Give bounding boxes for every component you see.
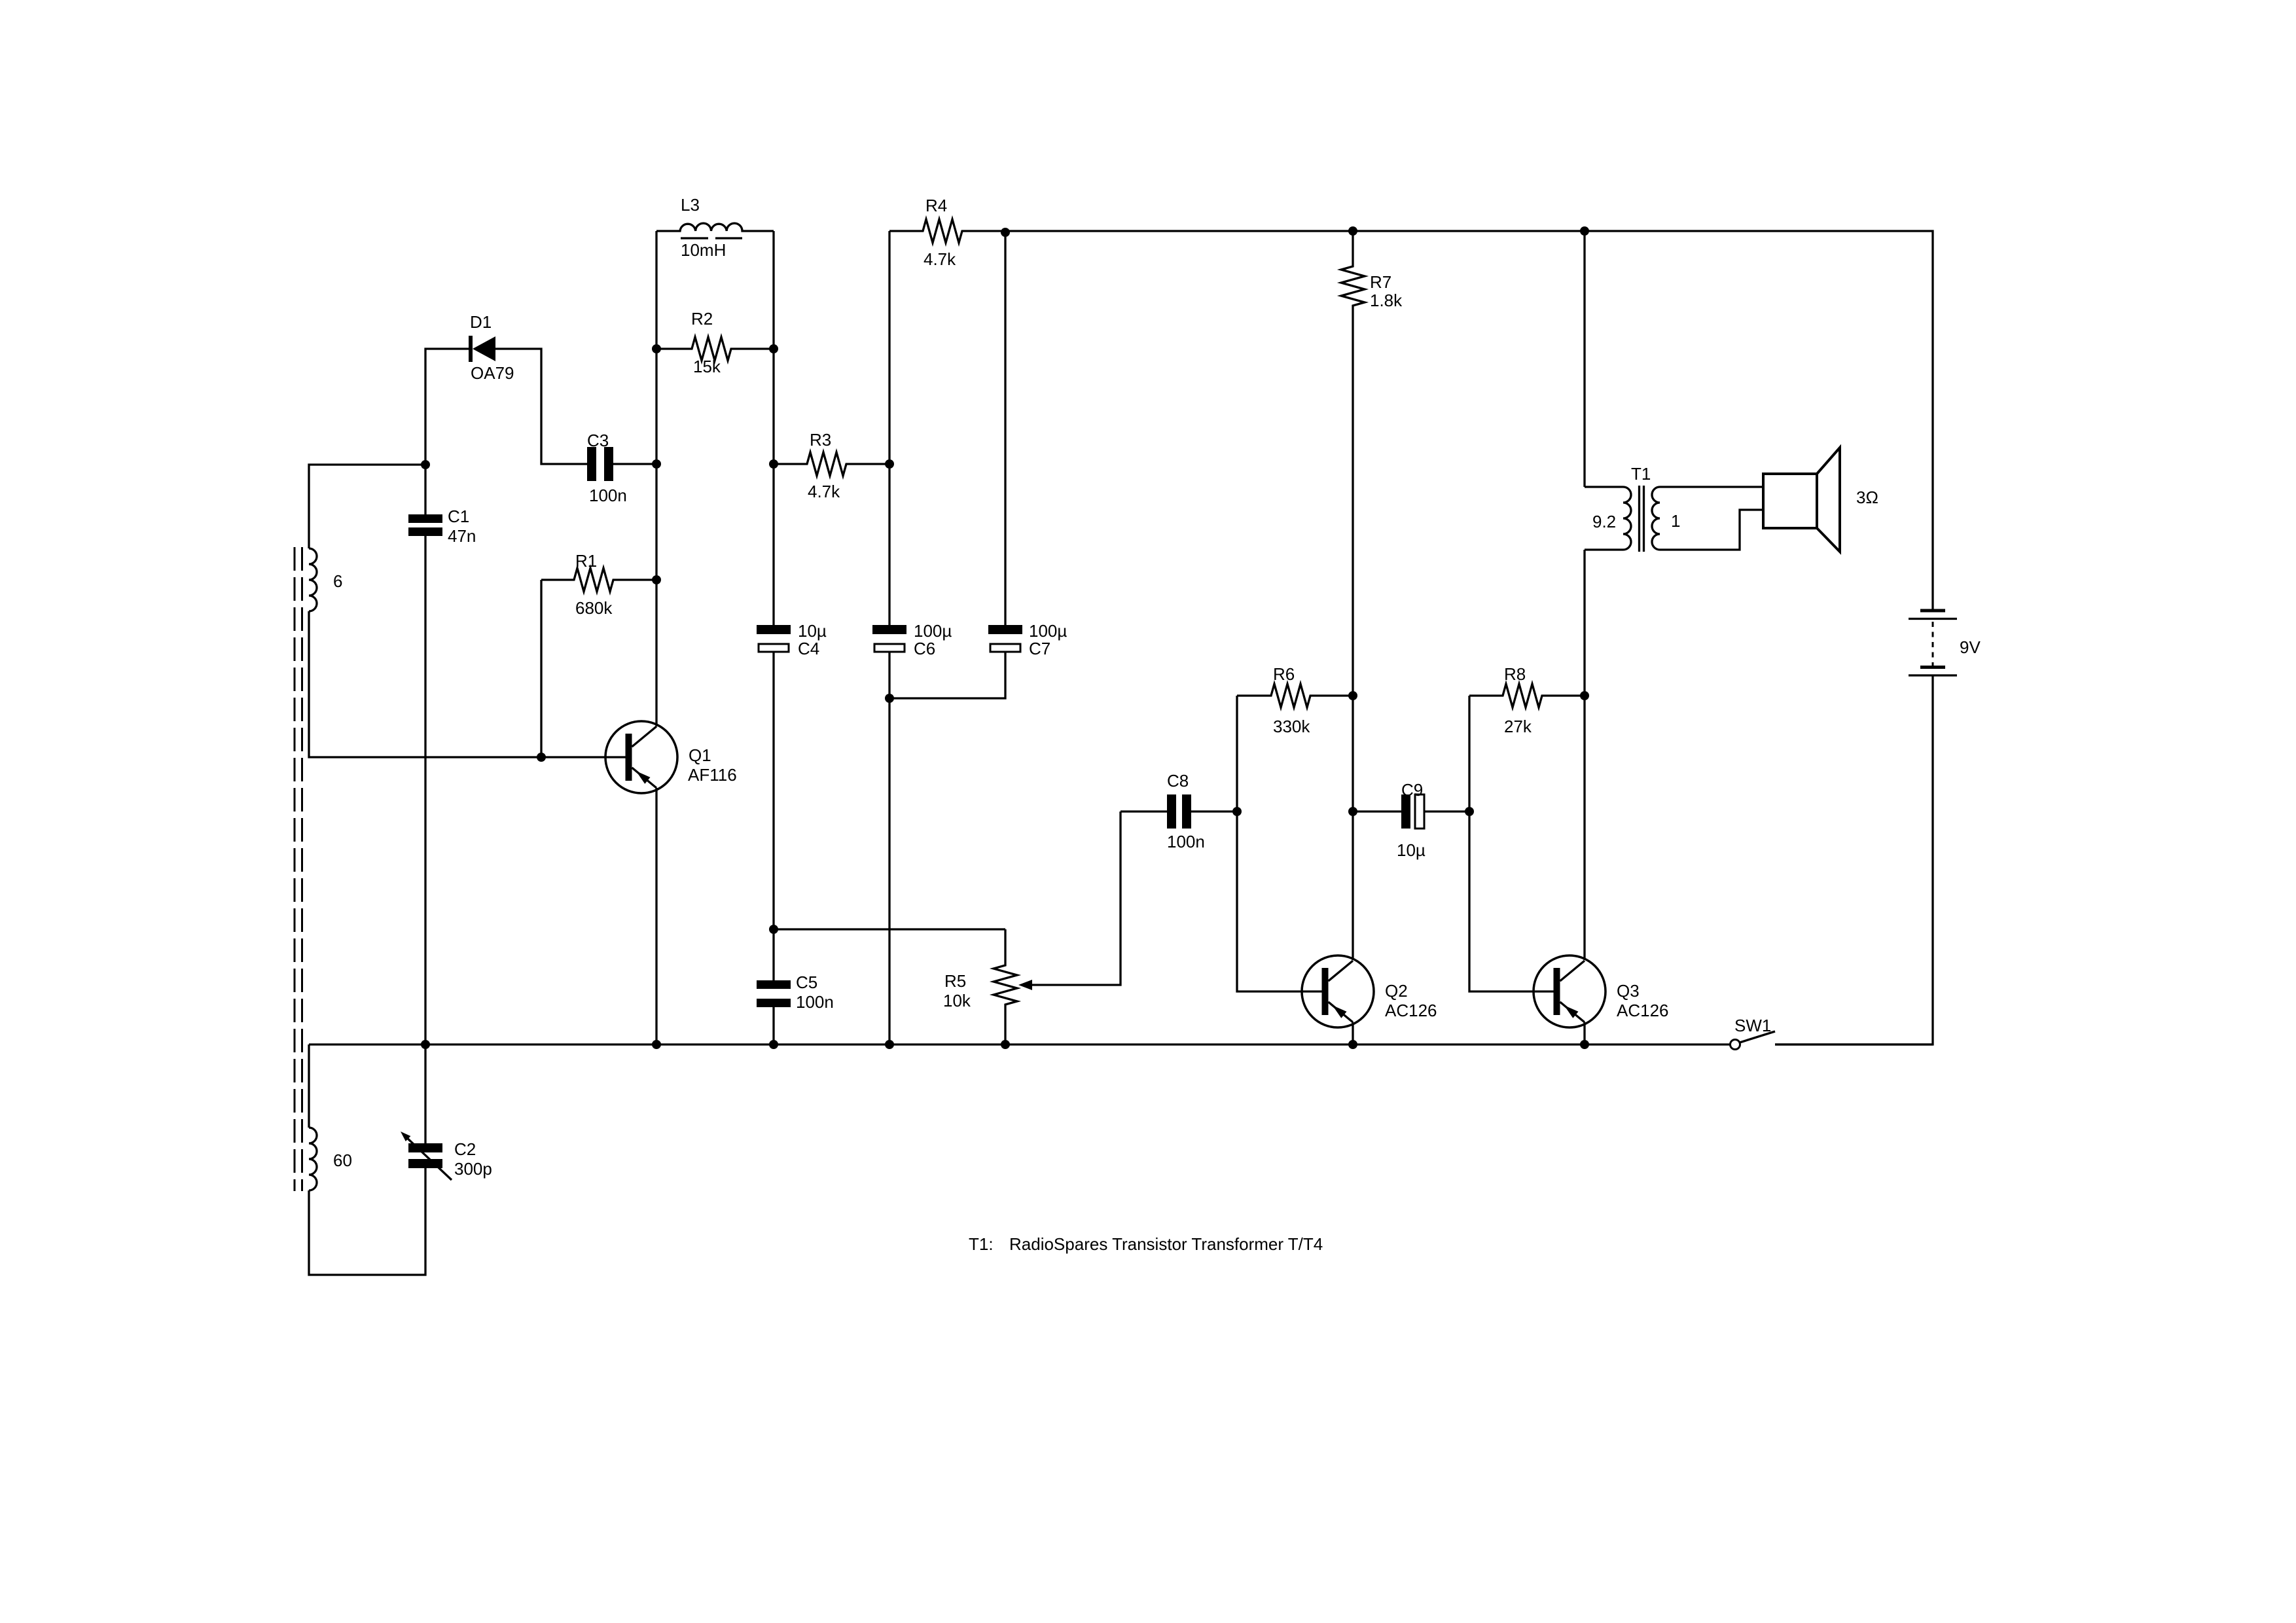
svg-text:R4: R4 — [925, 196, 947, 215]
resistor R3 4.7k — [774, 452, 889, 476]
transistor Q1 AF116 — [605, 721, 677, 793]
svg-text:R7: R7 — [1370, 272, 1391, 292]
capacitor C9 10u (polarized) — [1401, 794, 1424, 829]
svg-text:100n: 100n — [796, 992, 834, 1012]
transformer T1 core — [1640, 486, 1644, 552]
node Q3 emitter ground — [1580, 1040, 1589, 1049]
svg-text:C1: C1 — [448, 507, 469, 526]
resistor R8 27k — [1469, 684, 1585, 707]
svg-text:C8: C8 — [1167, 771, 1189, 791]
node C1/C2 ground — [421, 1040, 430, 1049]
svg-text:9.2: 9.2 — [1592, 512, 1616, 531]
capacitor C4 10u (polarized) — [757, 625, 791, 652]
node C3 right — [652, 459, 661, 469]
wire Q3 emitter to ground rail — [1583, 1022, 1585, 1044]
node R4 right / C7 top — [1001, 228, 1010, 237]
wire coil 60 bottom loop to C2 bottom — [309, 1168, 425, 1275]
resistor R1 680k — [541, 568, 656, 592]
node C5 ground — [769, 1040, 778, 1049]
wire C9 right lead — [1424, 810, 1469, 812]
transistor Q3 AC126 — [1534, 955, 1605, 1027]
antenna coil 6 turns — [309, 548, 317, 611]
variable capacitor C2 300p — [401, 1132, 452, 1180]
node C6/C7 — [885, 694, 894, 703]
svg-text:4.7k: 4.7k — [924, 249, 956, 269]
svg-text:680k: 680k — [575, 598, 613, 618]
svg-text:300p: 300p — [454, 1159, 492, 1179]
capacitor C8 100n — [1167, 794, 1191, 829]
svg-text:C3: C3 — [587, 431, 609, 450]
wire C1 bottom lead to ground rail — [424, 536, 426, 1044]
wire C9 left lead — [1353, 810, 1401, 812]
capacitor C7 100u (polarized) — [988, 625, 1022, 652]
switch SW1 — [1731, 1031, 1933, 1050]
wire C7 bottom lead and link to C6 column — [889, 652, 1005, 698]
node R2 left — [652, 344, 661, 353]
svg-text:1: 1 — [1671, 511, 1680, 531]
capacitor C1 47n — [408, 514, 442, 536]
wire Q2 collector column (R6/R7 node down through C9 node) — [1352, 696, 1354, 960]
wire C7 top lead from R4 node — [1004, 232, 1006, 625]
svg-text:OA79: OA79 — [471, 363, 514, 383]
svg-text:R8: R8 — [1504, 664, 1526, 684]
wire C8 right column (R6 left, down to Q2 base) — [1191, 696, 1322, 991]
L3 core bars — [681, 237, 742, 239]
svg-text:C7: C7 — [1029, 639, 1050, 658]
svg-text:AF116: AF116 — [688, 765, 737, 785]
top supply rail — [1005, 231, 1933, 611]
wire antenna coil top to node at C1/D1 column — [309, 465, 425, 548]
wire C5 bottom lead to ground rail — [772, 1007, 774, 1044]
svg-text:Q3: Q3 — [1617, 981, 1640, 1001]
svg-text:10mH: 10mH — [681, 240, 726, 260]
svg-text:R2: R2 — [691, 309, 713, 329]
wire D1 left lead from node — [425, 349, 469, 465]
node R2 right — [769, 344, 778, 353]
wire speaker bottom lead — [1660, 510, 1763, 550]
wire C8 left lead — [1121, 810, 1167, 812]
wire Q2 emitter to ground rail — [1352, 1022, 1354, 1044]
svg-text:C9: C9 — [1401, 780, 1423, 800]
svg-text:15k: 15k — [693, 357, 721, 376]
node C8 right — [1232, 807, 1242, 816]
svg-text:47n: 47n — [448, 526, 476, 546]
node R5 ground — [1001, 1040, 1010, 1049]
svg-text:330k: 330k — [1273, 717, 1310, 736]
node R6/R7 — [1348, 691, 1357, 700]
wire L3/R2 right column down to C4 — [772, 231, 774, 625]
svg-text:27k: 27k — [1504, 717, 1532, 736]
svg-text:C2: C2 — [454, 1139, 476, 1159]
transformer T1 secondary winding 1 — [1652, 487, 1660, 550]
svg-text:60: 60 — [333, 1150, 352, 1170]
node C1/D1/antenna — [421, 460, 430, 469]
svg-text:100µ: 100µ — [1029, 621, 1067, 641]
svg-text:T1: T1 — [1631, 464, 1651, 484]
wire T1 primary top from supply rail — [1583, 231, 1585, 487]
svg-text:100n: 100n — [589, 486, 627, 505]
antenna coil 60 turns — [309, 1128, 317, 1190]
wire C4 bottom lead down through R5 node to C5 — [772, 652, 774, 980]
wire speaker top lead — [1660, 486, 1763, 488]
resistor R4 4.7k — [889, 219, 1005, 243]
resistor R2 15k — [656, 337, 774, 361]
svg-text:SW1: SW1 — [1734, 1016, 1771, 1035]
wire battery negative to ground rail and switch — [1775, 675, 1933, 1044]
svg-text:10µ: 10µ — [1397, 840, 1426, 860]
speaker 3 ohm — [1763, 448, 1840, 552]
svg-text:R3: R3 — [810, 430, 831, 450]
svg-text:AC126: AC126 — [1385, 1001, 1437, 1020]
node T1 top rail — [1580, 226, 1589, 236]
capacitor C6 100u (polarized) — [872, 625, 906, 652]
inductor L3 10mH — [656, 223, 774, 231]
node C9 right — [1465, 807, 1474, 816]
svg-text:1.8k: 1.8k — [1370, 291, 1403, 310]
svg-text:100µ: 100µ — [914, 621, 952, 641]
resistor R6 330k — [1237, 684, 1353, 707]
node R7 top rail — [1348, 226, 1357, 236]
capacitor C5 100n — [757, 980, 791, 1007]
wire C3 right lead to main column — [613, 463, 656, 465]
battery 9V — [1909, 611, 1957, 675]
wire C6 bottom lead to ground rail — [888, 652, 890, 1044]
node C4/C5/R5 — [769, 925, 778, 934]
svg-text:9V: 9V — [1960, 637, 1981, 657]
node R1 right — [652, 575, 661, 584]
wire antenna coil 6 bottom to Q1 base — [309, 611, 626, 757]
svg-text:Q1: Q1 — [689, 745, 711, 765]
wire C2 top lead from ground rail — [424, 1044, 426, 1143]
svg-text:RadioSpares Transistor Transfo: RadioSpares Transistor Transformer T/T4 — [1009, 1234, 1323, 1254]
wire Q1 emitter to ground rail — [655, 788, 657, 1044]
node R3 left — [769, 459, 778, 469]
node R1 left at Q1 base — [537, 753, 546, 762]
svg-text:3Ω: 3Ω — [1856, 488, 1878, 507]
node R3 right — [885, 459, 894, 469]
svg-text:L3: L3 — [681, 195, 700, 215]
wire D1 right lead down to C3 — [495, 349, 587, 464]
node C6 ground — [885, 1040, 894, 1049]
diode D1 OA79 — [469, 336, 495, 362]
wire main node column (L3/R2 left, C3, R1, Q1 collector) — [655, 231, 657, 726]
transformer T1 primary winding 9.2 — [1585, 487, 1631, 550]
ferrite rod core (two dashed lines) — [295, 547, 302, 1191]
ground/common bottom rail — [309, 1043, 1731, 1045]
wire R1 left lead down to Q1 base wire — [540, 580, 542, 757]
capacitor C3 100n — [587, 447, 613, 481]
svg-text:10k: 10k — [943, 991, 971, 1010]
svg-text:C6: C6 — [914, 639, 935, 658]
svg-text:100n: 100n — [1167, 832, 1205, 851]
wire C1 top lead — [424, 465, 426, 514]
node R8 right / T1 bottom — [1580, 691, 1589, 700]
svg-text:C4: C4 — [798, 639, 819, 658]
wire R4 left column (R3 right up to top rail) — [888, 231, 890, 625]
node Q2 emitter ground — [1348, 1040, 1357, 1049]
svg-text:AC126: AC126 — [1617, 1001, 1669, 1020]
svg-text:4.7k: 4.7k — [808, 482, 840, 501]
svg-text:R6: R6 — [1273, 664, 1295, 684]
resistor R7 1.8k (vertical from top rail) — [1341, 231, 1365, 696]
svg-text:T1:: T1: — [969, 1234, 994, 1254]
svg-text:C5: C5 — [796, 972, 817, 992]
wire R5 top from C4/C5 node — [774, 928, 1005, 930]
R5 wiper arrow — [1018, 811, 1121, 990]
node Q1 emitter ground — [652, 1040, 661, 1049]
svg-text:6: 6 — [333, 571, 342, 591]
svg-text:D1: D1 — [470, 312, 492, 332]
wire T1 primary bottom down to Q3 collector — [1583, 550, 1585, 960]
svg-text:R1: R1 — [575, 551, 597, 571]
node C9 left — [1348, 807, 1357, 816]
svg-text:Q2: Q2 — [1385, 981, 1408, 1001]
wire ground rail left corner down to coil 60 — [308, 1044, 310, 1128]
potentiometer R5 10k — [994, 929, 1017, 1044]
svg-text:10µ: 10µ — [798, 621, 827, 641]
wire R8 left column down to Q3 base — [1469, 696, 1554, 991]
transistor Q2 AC126 — [1302, 955, 1374, 1027]
svg-text:R5: R5 — [944, 971, 966, 991]
